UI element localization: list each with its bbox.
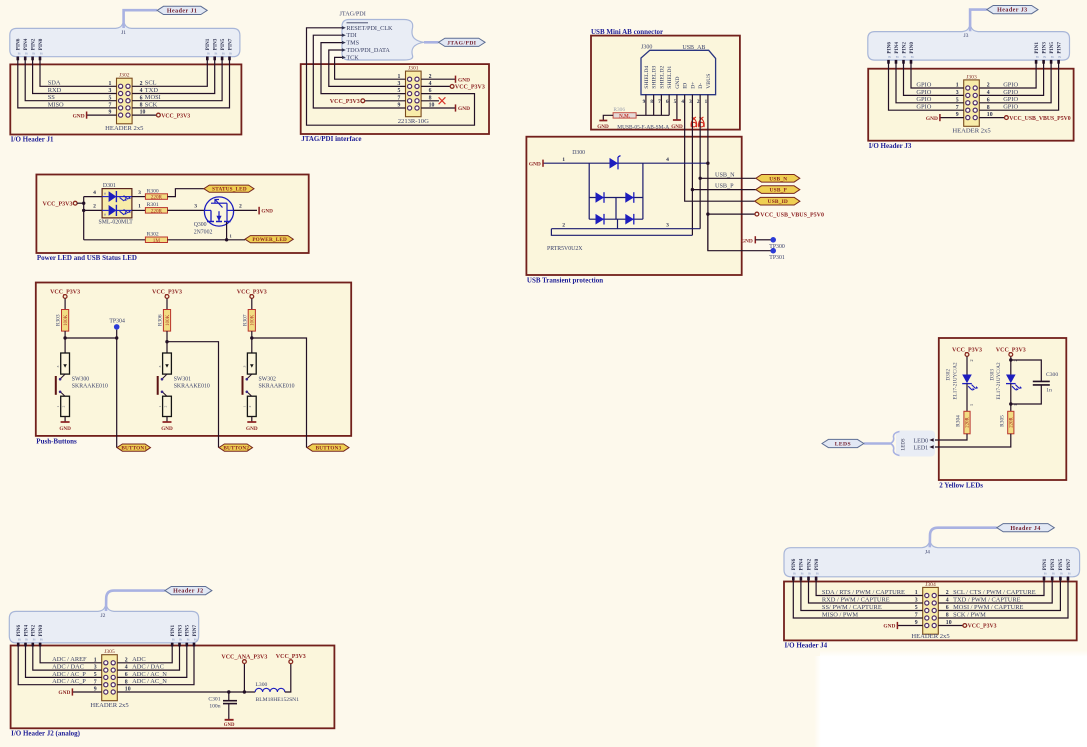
hierarchical label Header J2: [165, 587, 212, 595]
svg-text:GND: GND: [597, 124, 609, 130]
svg-text:1: 1: [705, 99, 708, 105]
net label and wire USB_P: [692, 183, 755, 190]
wire TDO/PDI_DATA to pin 3: [329, 50, 406, 86]
svg-text:GND: GND: [671, 124, 683, 130]
svg-text:100K: 100K: [251, 314, 256, 326]
svg-text:GPIO: GPIO: [916, 89, 931, 96]
svg-text:MOSI / PWM / CAPTURE: MOSI / PWM / CAPTURE: [953, 604, 1023, 611]
sheet pin stubs of J1: [17, 57, 231, 61]
global label USB_P: [756, 186, 800, 194]
svg-text:I/O Header J1: I/O Header J1: [11, 136, 54, 144]
svg-text:Power LED and USB Status LED: Power LED and USB Status LED: [37, 254, 137, 262]
svg-text:2: 2: [93, 204, 96, 210]
wire J3 PIN5 to pin 6: [979, 60, 1051, 103]
ground at pin 10 of J301: [421, 104, 470, 112]
svg-text:GND: GND: [458, 106, 470, 112]
wire J1 PIN7 to pin 8: [132, 57, 229, 108]
svg-text:ADC / DAC: ADC / DAC: [132, 664, 164, 671]
wires shield pins to R306: [636, 95, 669, 116]
svg-text:JTAG/PDI: JTAG/PDI: [447, 40, 476, 46]
svg-text:1: 1: [562, 157, 565, 163]
svg-text:2: 2: [969, 359, 974, 361]
wire J1 PIN5 to pin 6: [132, 57, 222, 101]
svg-text:PIN3: PIN3: [177, 624, 183, 636]
wire Q300 source to POWER_LED rail: [225, 222, 233, 242]
block frame Power LED and USB Status LED: [36, 175, 308, 263]
svg-text:220R: 220R: [151, 195, 163, 201]
svg-text:MISO / PWM: MISO / PWM: [822, 611, 859, 618]
svg-text:PRTR5V0U2X: PRTR5V0U2X: [547, 246, 583, 252]
svg-text:Q300: Q300: [194, 222, 207, 228]
svg-text:Bi: Bi: [18, 638, 21, 642]
svg-text:BUTTON1: BUTTON1: [121, 446, 147, 452]
sheet symbol J3: [868, 26, 1070, 60]
svg-text:VCC_P3V3: VCC_P3V3: [161, 113, 190, 119]
svg-text:D300: D300: [572, 150, 585, 156]
ground below SW301: [161, 417, 173, 432]
svg-text:Header J3: Header J3: [997, 8, 1027, 14]
wire J1 PIN0 to pin 7: [18, 57, 117, 108]
svg-text:TDI: TDI: [346, 32, 356, 39]
svg-text:3: 3: [138, 190, 141, 196]
power VCC_ANA_P3V3: [221, 655, 267, 694]
svg-text:2 Yellow LEDs: 2 Yellow LEDs: [939, 481, 983, 489]
svg-text:1M: 1M: [153, 238, 161, 244]
svg-text:USB_N: USB_N: [769, 176, 787, 182]
bus to hierarchical label Header J3: [970, 10, 987, 32]
svg-text:PIN7: PIN7: [227, 38, 233, 50]
block frame Push-Buttons: [36, 283, 351, 446]
svg-text:PIN5: PIN5: [220, 38, 226, 50]
svg-text:Bi: Bi: [816, 572, 819, 576]
resistor R306 100K: [158, 310, 171, 332]
svg-text:R305: R305: [999, 415, 1005, 427]
svg-text:ADC / AC_P: ADC / AC_P: [52, 671, 86, 678]
svg-text:3: 3: [689, 99, 692, 105]
block frame I/O Header J2 (analog): [11, 646, 335, 738]
wire R304 to sheet pin: [933, 434, 968, 440]
wire J4 PIN6 to pin 1: [816, 577, 923, 596]
sheet pins PIN1 PIN3 PIN5 PIN7 of J4: [1042, 558, 1072, 575]
svg-text:I/O Header J3: I/O Header J3: [869, 142, 912, 150]
svg-text:SCL: SCL: [145, 80, 157, 87]
sheet pins RESET/PDI_CLK TDI TMS TDO/PDI_DATA TCK: [342, 23, 393, 62]
svg-text:R302: R302: [147, 231, 159, 237]
svg-text:L300: L300: [256, 682, 268, 688]
resistor R305 220R: [999, 411, 1014, 434]
svg-text:TP304: TP304: [109, 318, 125, 324]
svg-text:GND: GND: [73, 113, 85, 119]
svg-text:2: 2: [163, 405, 167, 407]
svg-text:TP301: TP301: [769, 255, 785, 261]
svg-text:7: 7: [658, 99, 661, 105]
svg-text:GND: GND: [926, 116, 938, 122]
svg-text:J4: J4: [925, 549, 930, 555]
svg-text:R303: R303: [56, 314, 62, 326]
wire J3 PIN4 to pin 3: [904, 60, 964, 95]
net labels left of J303: [916, 81, 931, 110]
svg-text:SKRAAKE010: SKRAAKE010: [259, 384, 295, 390]
svg-text:RXD: RXD: [48, 87, 62, 94]
wire R303 to switch SW300: [63, 331, 66, 353]
svg-text:220R: 220R: [966, 417, 971, 428]
svg-text:R306: R306: [158, 314, 164, 326]
svg-text:SHIELD2: SHIELD2: [660, 66, 666, 89]
svg-text:EL17-21UYC/A2: EL17-21UYC/A2: [996, 362, 1002, 400]
svg-text:Bi: Bi: [1068, 572, 1071, 576]
svg-text:VCC_P3V3: VCC_P3V3: [455, 85, 485, 91]
wire J3 PIN2 to pin 5: [896, 60, 964, 103]
svg-text:Header J2: Header J2: [173, 589, 203, 595]
svg-text:Bi: Bi: [172, 638, 175, 642]
svg-text:J303: J303: [966, 74, 977, 80]
hierarchical label Header J4: [997, 524, 1055, 532]
svg-text:SCK / PWM: SCK / PWM: [953, 611, 986, 618]
svg-text:POWER_LED: POWER_LED: [252, 237, 287, 243]
svg-text:VCC_P3V3: VCC_P3V3: [43, 202, 73, 208]
svg-text:LEDS: LEDS: [902, 438, 907, 450]
svg-text:PIN7: PIN7: [192, 624, 198, 636]
svg-text:100K: 100K: [64, 314, 69, 326]
svg-text:LED1: LED1: [914, 445, 929, 451]
resistor R307 100K: [242, 310, 255, 332]
sheet pins PIN6 PIN4 PIN2 PIN0 of J3: [886, 42, 915, 59]
block frame 2 Yellow LEDs: [939, 338, 1067, 489]
wire J1 PIN1 to pin 2: [132, 57, 207, 87]
wire to D301 pin 4: [84, 190, 102, 197]
wire SW301 to BUTTON2: [167, 342, 219, 448]
svg-text:D-: D-: [698, 83, 704, 89]
svg-text:HEADER 2x5: HEADER 2x5: [911, 633, 950, 640]
svg-text:SHIELD3: SHIELD3: [652, 66, 658, 89]
sheet pins PIN1 PIN3 PIN5 PIN7 of J2: [170, 624, 198, 641]
power VCC_USB_VBUS_P5V0: [708, 212, 824, 218]
svg-text:3: 3: [158, 365, 162, 367]
svg-text:BLM18HE152SN1: BLM18HE152SN1: [256, 697, 300, 703]
svg-text:GND: GND: [741, 238, 753, 244]
switch SW301 SKRAAKE010: [158, 353, 210, 417]
svg-text:JTAG/PDI interface: JTAG/PDI interface: [301, 135, 361, 143]
sheet pins PIN1 PIN3 PIN5 PIN7 of J3: [1034, 42, 1063, 59]
svg-text:GPIO: GPIO: [1003, 104, 1018, 111]
svg-text:PIN6: PIN6: [886, 42, 892, 54]
svg-text:2: 2: [248, 405, 252, 407]
svg-text:GPIO: GPIO: [1003, 89, 1018, 96]
wire D301 pin 1 to R301: [132, 204, 146, 211]
wire J4 PIN3 to pin 4: [938, 577, 1052, 603]
svg-text:HEADER 2x5: HEADER 2x5: [90, 702, 129, 709]
svg-text:BUTTON2: BUTTON2: [223, 446, 249, 452]
svg-text:1: 1: [969, 404, 974, 406]
svg-text:SKRAAKE010: SKRAAKE010: [174, 384, 210, 390]
wire J4 PIN1 to pin 2: [938, 577, 1044, 596]
wire J2 PIN3 to pin 4: [117, 643, 179, 670]
sheet pins LED0 LED1: [914, 438, 934, 451]
power VCC_P3V3 at pin 10 of J304: [938, 624, 996, 630]
diode array D300 PRTR5V0U2X: [543, 150, 708, 252]
svg-text:D+: D+: [691, 81, 697, 88]
svg-text:PIN0: PIN0: [814, 558, 820, 570]
net label and wire USB_N: [700, 171, 756, 178]
wire VCC rail vertical: [82, 197, 85, 240]
svg-text:C301: C301: [208, 697, 220, 703]
svg-text:USB Transient protection: USB Transient protection: [527, 276, 603, 284]
svg-text:100n: 100n: [209, 703, 220, 709]
svg-text:SW302: SW302: [259, 376, 276, 382]
svg-text:PIN4: PIN4: [23, 624, 29, 636]
wire J2 PIN0 to pin 7: [18, 643, 102, 685]
svg-text:R304: R304: [956, 415, 962, 427]
wire R301 to Q300 gate: [168, 204, 205, 211]
svg-text:PIN2: PIN2: [901, 42, 907, 54]
svg-text:GPIO: GPIO: [916, 104, 931, 111]
svg-text:PIN6: PIN6: [16, 38, 22, 50]
svg-text:PIN4: PIN4: [894, 42, 900, 54]
svg-text:1: 1: [158, 405, 162, 407]
svg-text:GND: GND: [261, 209, 273, 215]
ground at pin 2 of J301: [421, 76, 470, 84]
svg-text:GND: GND: [59, 426, 71, 432]
transistor Q300 2N7002: [194, 197, 234, 236]
test point TP301: [708, 214, 785, 261]
svg-text:USB_N: USB_N: [715, 171, 735, 178]
svg-text:HEADER 2x5: HEADER 2x5: [105, 125, 144, 132]
sheet symbol J2: [9, 606, 198, 643]
wire J4 PIN4 to pin 3: [809, 577, 923, 603]
wire R307 to switch SW302: [250, 331, 253, 353]
resistor R303 100K: [56, 310, 69, 332]
wire J1 PIN2 to pin 5: [25, 57, 116, 101]
global label BUTTON1: [117, 444, 151, 452]
svg-text:PIN2: PIN2: [30, 38, 36, 50]
svg-text:SCL / CTS / PWM / CAPTURE: SCL / CTS / PWM / CAPTURE: [953, 589, 1036, 596]
svg-text:SS/ PWM / CAPTURE: SS/ PWM / CAPTURE: [822, 604, 882, 611]
capacitor C300: [1009, 358, 1058, 405]
svg-text:Bi: Bi: [1051, 55, 1054, 59]
svg-text:GND: GND: [458, 77, 470, 83]
svg-text:PIN4: PIN4: [799, 558, 805, 570]
svg-text:Bi: Bi: [1036, 55, 1039, 59]
svg-text:Bi: Bi: [808, 572, 811, 576]
global label STATUS_LED: [204, 185, 254, 193]
bus stub to JTAG/PDI label: [424, 41, 439, 44]
resistor R304 220R: [956, 411, 971, 434]
power VCC_USB_VBUS_P5V0 at pin 10 of J303: [979, 116, 1071, 122]
svg-text:SHIELD4: SHIELD4: [644, 66, 650, 89]
svg-text:TCK: TCK: [346, 54, 359, 61]
wire USB D- down: [699, 95, 701, 229]
svg-text:3: 3: [194, 204, 197, 210]
svg-text:Bi: Bi: [187, 638, 190, 642]
svg-text:GND: GND: [58, 690, 70, 696]
svg-text:ADC / AREF: ADC / AREF: [52, 656, 87, 663]
switch SW300 SKRAAKE010: [56, 353, 108, 417]
block frame USB Transient protection: [526, 137, 741, 285]
svg-text:2: 2: [239, 204, 242, 210]
svg-text:STATUS_LED: STATUS_LED: [212, 187, 247, 193]
switch SW302 SKRAAKE010: [243, 353, 295, 417]
wire J2 PIN2 to pin 5: [26, 643, 102, 678]
svg-text:Bi: Bi: [229, 51, 232, 55]
power VCC_P3V3 in LED block: [43, 201, 84, 207]
svg-text:TDO/PDI_DATA: TDO/PDI_DATA: [346, 47, 390, 54]
svg-text:VCC_P3V3: VCC_P3V3: [276, 654, 306, 660]
LED D302 EL17-21UYC/A2: [946, 359, 979, 411]
svg-text:220R: 220R: [151, 208, 163, 214]
svg-text:MOSI: MOSI: [145, 94, 161, 101]
svg-text:Bi: Bi: [33, 638, 36, 642]
svg-text:GPIO: GPIO: [916, 81, 931, 88]
svg-text:Bi: Bi: [1060, 572, 1063, 576]
wire J3 PIN0 to pin 7: [889, 60, 964, 110]
wire J1 PIN4 to pin 3: [33, 57, 117, 94]
svg-text:I/O Header J4: I/O Header J4: [785, 642, 828, 650]
svg-text:Header J1: Header J1: [167, 9, 197, 15]
svg-text:ADC / AC_N: ADC / AC_N: [132, 671, 167, 678]
svg-text:R300: R300: [147, 188, 159, 194]
svg-text:C300: C300: [1046, 372, 1058, 378]
bus to hierarchical label Header J2: [106, 591, 165, 611]
svg-text:Bi: Bi: [179, 638, 182, 642]
ground at pin 9 of J302: [73, 112, 117, 120]
wire Q300 drain to ground: [234, 204, 274, 215]
ground below C301: [224, 720, 235, 728]
svg-text:LED0: LED0: [914, 438, 929, 444]
block frame USB Mini AB connector: [591, 28, 740, 129]
block frame I/O Header J1: [10, 64, 241, 143]
svg-text:VBUS: VBUS: [706, 74, 712, 89]
svg-text:6: 6: [666, 99, 669, 105]
net labels left of J304: [822, 589, 905, 619]
power VCC_P3V3 at pin 4 of J301: [421, 85, 485, 91]
ground left of R306: [597, 115, 613, 130]
ground at USB pin 5: [671, 95, 683, 131]
wire J2 PIN6 to pin 1: [40, 643, 102, 663]
resistor R306 N.M.: [613, 107, 636, 119]
svg-text:SKRAAKE010: SKRAAKE010: [72, 384, 108, 390]
ground below SW300: [59, 417, 71, 432]
hierarchical label Header J1: [157, 6, 207, 14]
power VCC_P3V3 at pin 10 of J302: [132, 113, 190, 119]
wire USB VBUS down: [707, 95, 709, 251]
wire USB ID to label: [685, 95, 755, 202]
wire SW300 to BUTTON1: [65, 338, 117, 448]
svg-text:3: 3: [56, 365, 60, 367]
wire J1 PIN3 to pin 4: [132, 57, 215, 94]
ground below SW302: [246, 417, 258, 432]
power VCC_P3V3 LED column 2: [996, 347, 1026, 374]
hierarchical label Header J3: [987, 6, 1038, 14]
svg-text:Bi: Bi: [214, 51, 217, 55]
svg-text:SML-020MLT: SML-020MLT: [99, 220, 134, 226]
svg-text:4: 4: [93, 190, 96, 196]
wire R305 to sheet pin: [933, 434, 1011, 447]
svg-text:TMS: TMS: [346, 40, 359, 47]
hierarchical label JTAG/PDI: [439, 38, 486, 46]
svg-text:USB_ID: USB_ID: [768, 199, 788, 205]
svg-text:J2: J2: [101, 613, 106, 619]
ground at pin 9 of J305: [58, 688, 101, 696]
svg-text:Bi: Bi: [801, 572, 804, 576]
svg-text:PIN3: PIN3: [1050, 558, 1056, 570]
svg-text:GND: GND: [675, 76, 681, 88]
svg-text:VCC_USB_VBUS_P5V0: VCC_USB_VBUS_P5V0: [1009, 116, 1071, 122]
svg-text:PIN2: PIN2: [31, 624, 37, 636]
svg-text:BUTTON3: BUTTON3: [316, 446, 342, 452]
connector J301 2213R-10G: [398, 66, 435, 126]
svg-text:JTAG/PDI: JTAG/PDI: [340, 11, 366, 18]
ground at pin 9 of J303: [926, 114, 964, 122]
svg-text:VCC_P3V3: VCC_P3V3: [968, 624, 997, 630]
svg-text:PIN5: PIN5: [185, 624, 191, 636]
svg-text:PIN0: PIN0: [38, 624, 44, 636]
svg-text:SCK: SCK: [145, 101, 158, 108]
svg-text:Bi: Bi: [207, 51, 210, 55]
wire J3 PIN6 to pin 1: [911, 60, 964, 88]
net labels right of J302: [145, 80, 161, 109]
svg-text:SW300: SW300: [72, 376, 89, 382]
svg-text:4: 4: [681, 99, 684, 105]
svg-text:PIN3: PIN3: [213, 38, 219, 50]
net labels right of J303: [1003, 81, 1018, 110]
svg-text:2: 2: [62, 405, 66, 407]
svg-text:VCC_P3V3: VCC_P3V3: [330, 99, 360, 105]
wire J4 PIN7 to pin 8: [938, 577, 1068, 618]
wire J2 PIN5 to pin 6: [117, 643, 187, 678]
svg-text:PIN1: PIN1: [1034, 42, 1040, 54]
global label USB_ID: [755, 197, 800, 205]
svg-text:GND: GND: [529, 161, 541, 167]
svg-text:N.M.: N.M.: [619, 114, 631, 119]
svg-text:HEADER 2x5: HEADER 2x5: [952, 128, 991, 135]
resistor R302 1M: [84, 231, 245, 243]
dual LED D301 SML-020MLT: [99, 183, 134, 226]
svg-text:VCC_ANA_P3V3: VCC_ANA_P3V3: [221, 655, 267, 661]
wire TCK to pin 1: [335, 57, 406, 79]
svg-text:Bi: Bi: [888, 55, 891, 59]
svg-text:Bi: Bi: [1043, 55, 1046, 59]
svg-text:J305: J305: [104, 649, 115, 655]
sheet symbol J4: [784, 542, 1080, 577]
svg-text:USB_P: USB_P: [770, 188, 788, 194]
svg-text:PIN1: PIN1: [170, 624, 176, 636]
sheet pin stubs of J2: [17, 643, 195, 647]
test point TP300 with ground: [741, 236, 785, 250]
svg-text:J304: J304: [925, 582, 936, 588]
global label USB_N: [756, 175, 800, 183]
global label BUTTON2: [219, 444, 253, 452]
net labels right of J305: [132, 656, 167, 685]
svg-text:Bi: Bi: [911, 55, 914, 59]
svg-text:D303: D303: [989, 369, 995, 381]
svg-text:PIN7: PIN7: [1056, 42, 1062, 54]
svg-text:220R: 220R: [1009, 417, 1014, 428]
sheet pin stubs of J3: [887, 60, 1060, 64]
svg-text:SHIELD1: SHIELD1: [667, 66, 673, 89]
svg-text:R301: R301: [147, 202, 159, 208]
no-connect at pin 8 of J301: [421, 97, 445, 104]
svg-text:GPIO: GPIO: [1003, 81, 1018, 88]
svg-text:2: 2: [562, 223, 565, 229]
svg-text:PIN3: PIN3: [1041, 42, 1047, 54]
global label POWER_LED: [245, 236, 293, 244]
sheet symbol LEDS: [890, 431, 935, 457]
inductor L300: [255, 682, 299, 703]
svg-text:ADC: ADC: [132, 656, 146, 663]
net labels left of J305: [52, 656, 87, 685]
junction dots on USB rails: [691, 162, 710, 216]
svg-text:1: 1: [243, 405, 247, 407]
